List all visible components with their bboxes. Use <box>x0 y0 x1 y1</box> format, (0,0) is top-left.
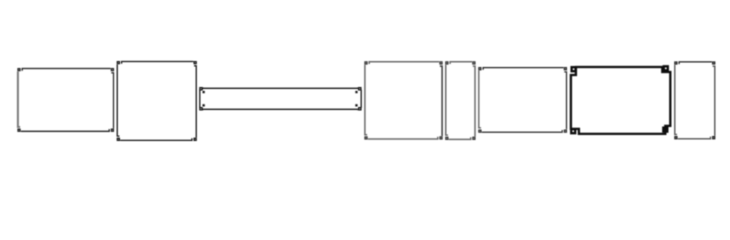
frame D (third square panel) <box>365 62 442 139</box>
frame G (bold greek-key panel) <box>571 66 670 134</box>
frame B (second square panel) <box>117 62 196 141</box>
connector bar (long horizontal cartouche) <box>200 88 361 111</box>
frame F (wide rectangle panel) <box>479 68 567 133</box>
frame H (right narrow panel) <box>675 62 715 139</box>
frame A (left rectangle panel) <box>18 69 114 132</box>
frame E (narrow tall panel) <box>446 62 475 140</box>
